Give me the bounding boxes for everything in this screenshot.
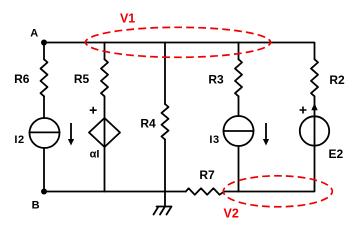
voltage probe ellipse V1 [86, 27, 271, 57]
svg-text:R4: R4 [140, 117, 156, 131]
svg-text:R5: R5 [74, 72, 90, 86]
resistor R2 [311, 59, 318, 96]
wire R5 top lead [104, 43, 106, 60]
wire I2 to node B [43, 148, 45, 192]
resistor R4 [162, 104, 169, 140]
voltage source E2 [300, 116, 329, 145]
wire R6 top lead [43, 43, 45, 60]
wire I3 to bottom rail [238, 146, 240, 192]
current source I3 [224, 116, 254, 146]
svg-text:B: B [32, 200, 40, 212]
dependent source alphaI diamond [89, 118, 120, 147]
current source I2 [30, 118, 60, 148]
svg-text:V2: V2 [224, 207, 239, 221]
svg-text:I3: I3 [209, 134, 219, 146]
wire R3 to I3 [238, 96, 240, 116]
wire R3 top lead [238, 43, 240, 60]
svg-text:R3: R3 [208, 73, 224, 87]
svg-text:V1: V1 [120, 12, 135, 26]
wire diamond to bottom rail [104, 147, 106, 192]
resistor R3 [235, 59, 242, 96]
wire bottom rail B to R7 left [44, 191, 186, 193]
arrow I3 current direction [263, 123, 269, 146]
svg-text:E2: E2 [328, 147, 343, 161]
arrow I2 current direction [68, 123, 74, 146]
svg-text:R2: R2 [329, 73, 345, 87]
svg-text:I2: I2 [14, 134, 24, 146]
node B junction dot [41, 189, 47, 195]
voltage probe ellipse V2 [223, 176, 332, 207]
ground [154, 192, 172, 215]
plus sign of alphaI source [90, 107, 97, 114]
wire R4 to bottom rail [164, 140, 166, 192]
wire bottom rail R7 right to corner and E2 branch vertical [224, 96, 314, 191]
resistor R7 [186, 188, 224, 194]
resistor R6 [41, 59, 48, 96]
wire top rail A to top-right corner and R2 top lead [44, 43, 315, 60]
arrow E2 emf direction [311, 103, 317, 110]
svg-text:A: A [30, 27, 38, 39]
node A junction dot [41, 40, 47, 46]
resistor R5 [101, 59, 108, 96]
wire R4 top lead [164, 43, 166, 105]
wire R6 to I2 [43, 96, 45, 118]
wire R5 to diamond [104, 96, 106, 118]
svg-text:αI: αI [90, 149, 100, 161]
svg-text:R6: R6 [14, 72, 30, 86]
svg-text:R7: R7 [199, 168, 215, 182]
plus sign of E2 [300, 107, 307, 114]
